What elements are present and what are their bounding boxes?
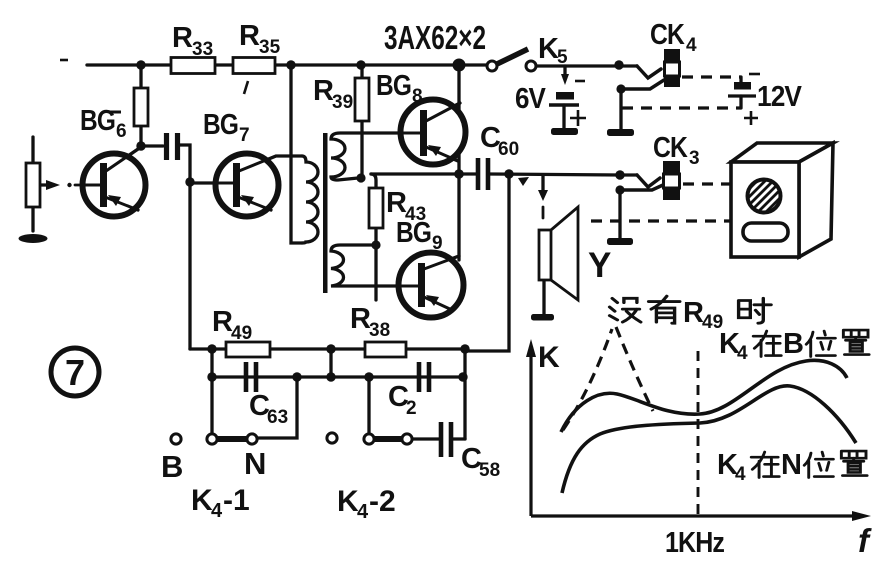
svg-text:B: B [783, 328, 803, 360]
wire supply riser to transformer primary bottom [291, 65, 302, 243]
wire supply to BG8 rail [457, 65, 460, 174]
ground 6V battery [551, 128, 578, 135]
wire CK4 hook contact [637, 66, 661, 78]
svg-text:CK: CK [653, 132, 688, 164]
svg-text:K: K [538, 341, 560, 374]
junction BG6 load top [136, 60, 145, 69]
switch K4-1 contact N [247, 434, 257, 444]
speaker Y arrow on output line [518, 177, 529, 186]
wire output line hook stub [620, 173, 637, 176]
svg-text:5: 5 [557, 47, 568, 68]
wire BG9 collector riser to output node [457, 174, 460, 260]
dashed speaker Y to box row [591, 219, 731, 222]
svg-text:7: 7 [65, 352, 85, 393]
speaker box (external loudspeaker) [731, 143, 833, 257]
svg-text:K: K [538, 33, 559, 65]
svg-text:3AX62×2: 3AX62×2 [384, 19, 486, 56]
wire riser mid [329, 349, 332, 377]
transistor BG7 [192, 154, 279, 217]
wire CK3 ground drop [618, 190, 621, 238]
junction BG8 bias node [356, 173, 365, 182]
svg-text:33: 33 [192, 39, 213, 60]
label 6V minus [575, 80, 585, 83]
junction BG7 base node [185, 177, 194, 186]
wire output line to C60 [371, 172, 476, 175]
svg-text:CK: CK [650, 19, 685, 51]
ground CK3 [607, 238, 633, 245]
switch K4-2 pole [364, 434, 374, 444]
graph dashed 1KHz line [697, 351, 700, 515]
junction R39 rail tap [356, 60, 365, 69]
capacitor C63 [246, 362, 256, 392]
ground CK4 [607, 129, 634, 136]
junction row2 K4-2 pole [364, 372, 373, 381]
resistor R38 [365, 342, 406, 357]
label 12V minus [749, 73, 760, 76]
graph curve K4 at B [561, 360, 847, 432]
resistor R35 [233, 58, 275, 74]
wire R38 stub from BG9 bias node [374, 245, 377, 300]
wire output down to bottom rail [467, 174, 509, 351]
wire R43 to BG9 bias node [374, 228, 377, 245]
svg-text:BG: BG [80, 105, 115, 137]
wire BG9 emitter [424, 297, 452, 310]
speaker box slot [743, 223, 788, 241]
wire R39 to bias node [360, 121, 363, 176]
wire 12V minus stub [739, 77, 742, 82]
svg-text:63: 63 [267, 407, 288, 428]
junction bottom rail mid [326, 344, 335, 353]
svg-text:4: 4 [357, 501, 369, 523]
wire coupling cap to BG7 base node [177, 145, 190, 182]
svg-text:12V: 12V [757, 81, 802, 113]
wire row2 feedback line [212, 375, 463, 378]
svg-text:39: 39 [332, 92, 353, 113]
wire riser K4-1 pole [210, 349, 213, 434]
wire node to coupling cap [141, 144, 163, 147]
junction CK3 sleeve node [615, 185, 624, 194]
svg-text:-2: -2 [369, 485, 396, 518]
junction after C60 [504, 169, 513, 178]
transformer secondary upper winding to BG8 base [331, 133, 421, 180]
potentiometer wiper arrow [46, 180, 60, 190]
wire K4-2 contact to C58 [411, 437, 439, 440]
junction BG9 bias node [371, 240, 380, 249]
wire R43 elbow from output line [371, 174, 376, 188]
svg-text:2: 2 [406, 398, 417, 419]
dash-dot dot [67, 183, 71, 187]
switch K4-1 pole [207, 434, 217, 444]
capacitor C60 [478, 158, 488, 190]
resistor R43 [369, 188, 383, 228]
resistor R33 [171, 58, 215, 74]
transistor BG8 [395, 100, 466, 165]
transformer primary winding T1 [302, 156, 318, 243]
transformer secondary lower winding to BG9 base [331, 245, 419, 286]
svg-text:58: 58 [479, 460, 500, 481]
stray mark above BG6 [110, 111, 121, 114]
svg-text:R: R [683, 297, 704, 329]
wire BG7 collector to transformer primary [239, 156, 302, 171]
battery 12V [728, 82, 756, 96]
svg-text:3: 3 [689, 148, 700, 169]
wire feedback riser from BG7 base [188, 182, 191, 349]
wire BG7 emitter [238, 197, 271, 210]
wire speaker Y branch [541, 175, 544, 190]
wire rail from switch K5 to CK4 [536, 64, 637, 67]
wire riser K4-2 pole [367, 377, 370, 434]
switch K4-2 contact [402, 434, 412, 444]
svg-text:R: R [350, 303, 371, 335]
junction CK3 tip node [615, 170, 624, 179]
jack CK4 [664, 49, 680, 87]
wire 6V battery to ground [562, 105, 565, 128]
transformer core [323, 133, 328, 293]
jack CK3 [663, 161, 680, 200]
wire BG8 collector [426, 103, 460, 121]
wire speaker Y dash drop [542, 207, 545, 218]
junction output midpoint [454, 169, 464, 179]
svg-text:-1: -1 [223, 484, 250, 517]
junction bottom rail left [207, 344, 216, 353]
svg-text:1KHz: 1KHz [665, 527, 724, 559]
wire C58 to riser [453, 437, 465, 440]
wire BG6 emitter [105, 197, 138, 210]
graph K axis [531, 352, 855, 516]
capacitor coupling BG6-BG7 [167, 133, 178, 160]
junction row2 right [458, 372, 467, 381]
speaker box grille circle [744, 176, 786, 220]
stray tick below R35 [244, 81, 248, 94]
svg-text:BG: BG [376, 70, 411, 102]
svg-text:43: 43 [405, 204, 426, 225]
svg-text:4: 4 [737, 343, 748, 364]
svg-text:6V: 6V [515, 83, 546, 115]
switch K4-1 contact B [171, 434, 181, 444]
resistor R49 [226, 342, 270, 357]
junction BG8 rail tap [453, 59, 466, 72]
svg-text:R: R [313, 75, 334, 107]
junction BG6 collector node [136, 141, 145, 150]
label K4 at N position (Chinese) [717, 449, 867, 485]
svg-text:6: 6 [116, 121, 127, 142]
svg-text:N: N [244, 446, 266, 481]
wire wiper dash-dot to BG6 [75, 184, 81, 187]
svg-text:K: K [191, 484, 213, 517]
wire CK4 sleeve to ground node [621, 80, 664, 89]
label 12V plus [744, 111, 758, 125]
label 6V plus [570, 110, 586, 126]
svg-text:9: 9 [432, 233, 443, 254]
wire CK4 ground drop [619, 89, 622, 129]
wire riser C58 right [463, 349, 466, 439]
dashed ground row to 12V plus [622, 106, 741, 109]
svg-text:K: K [337, 485, 359, 518]
wire BG8 emitter [426, 147, 458, 161]
capacitor C58 [441, 422, 451, 457]
svg-text:4: 4 [686, 35, 697, 56]
svg-text:8: 8 [412, 86, 423, 107]
junction row2 left [207, 372, 216, 381]
wire BG6 collector to node [106, 147, 141, 171]
svg-text:R: R [212, 306, 233, 338]
transistor BG9 [393, 253, 464, 318]
resistor BG6 collector load [134, 88, 148, 126]
potentiometer W input [26, 163, 40, 207]
speaker Y [539, 207, 578, 300]
svg-text:49: 49 [231, 323, 252, 344]
wire input pot top lead [31, 137, 34, 163]
switch K4-2 blade [373, 436, 403, 442]
svg-text:BG: BG [203, 109, 238, 141]
junction K5 to CK4 rail [614, 60, 623, 69]
dashed CK4 tip to 12V [682, 75, 741, 78]
svg-text:Y: Y [588, 246, 611, 285]
ground speaker Y [531, 314, 554, 321]
graph dashed resonance peak curve [563, 327, 653, 430]
wire 6V battery tap [563, 66, 566, 75]
wire BG7 base [190, 181, 235, 184]
switch K4-2 open contact [327, 433, 337, 443]
speaker Y feed arrow [538, 190, 548, 201]
wire BG6 collector load branch [139, 65, 142, 146]
svg-text:35: 35 [259, 37, 281, 58]
svg-text:4: 4 [211, 500, 223, 522]
junction row2 N riser [292, 372, 301, 381]
battery 6V [549, 74, 579, 135]
wire BG6 base [81, 183, 102, 186]
wire K4-1 N contact riser [257, 377, 297, 438]
transistor BG6 [81, 149, 146, 217]
svg-text:R: R [386, 187, 407, 219]
svg-text:N: N [781, 449, 801, 481]
svg-text:R: R [172, 22, 193, 54]
wire 12V plus stub [739, 96, 742, 108]
label K4 at B position (Chinese) [719, 328, 869, 364]
wire top supply rail left [87, 63, 487, 66]
junction row2 mid [326, 372, 335, 381]
label without R49 (Chinese) [610, 296, 772, 333]
svg-text:B: B [161, 449, 183, 484]
wire C60 to CK3 output line [489, 174, 620, 175]
wire bottom rail [190, 347, 465, 350]
resistor R39 [355, 78, 369, 121]
ground under potentiometer [19, 234, 48, 243]
svg-text:4: 4 [735, 464, 746, 485]
stray mark top left [60, 59, 68, 62]
wire speaker Y ground drop [542, 280, 545, 314]
svg-text:R: R [239, 20, 260, 52]
wire R39 branch [360, 65, 363, 78]
switch K4-1 blade [216, 436, 248, 442]
junction primary return rail [286, 60, 295, 69]
svg-text:7: 7 [239, 125, 250, 146]
wire CK3 sleeve to ground node [620, 185, 663, 190]
svg-text:38: 38 [369, 320, 390, 341]
wire BG9 collector [424, 256, 459, 269]
wire pot wiper lead [40, 183, 47, 186]
junction bottom rail right [460, 344, 469, 353]
figure number 7 circled [51, 348, 99, 396]
svg-text:60: 60 [498, 139, 519, 160]
graph curve K4 at N [562, 386, 856, 493]
switch K5 [487, 49, 536, 71]
junction CK4 sleeve node [616, 84, 625, 93]
capacitor C2 [419, 362, 429, 392]
wire input pot bottom lead [31, 207, 34, 231]
dashed CK3 tip to speaker box [683, 182, 731, 185]
wire CK3 hook contact [637, 175, 660, 187]
